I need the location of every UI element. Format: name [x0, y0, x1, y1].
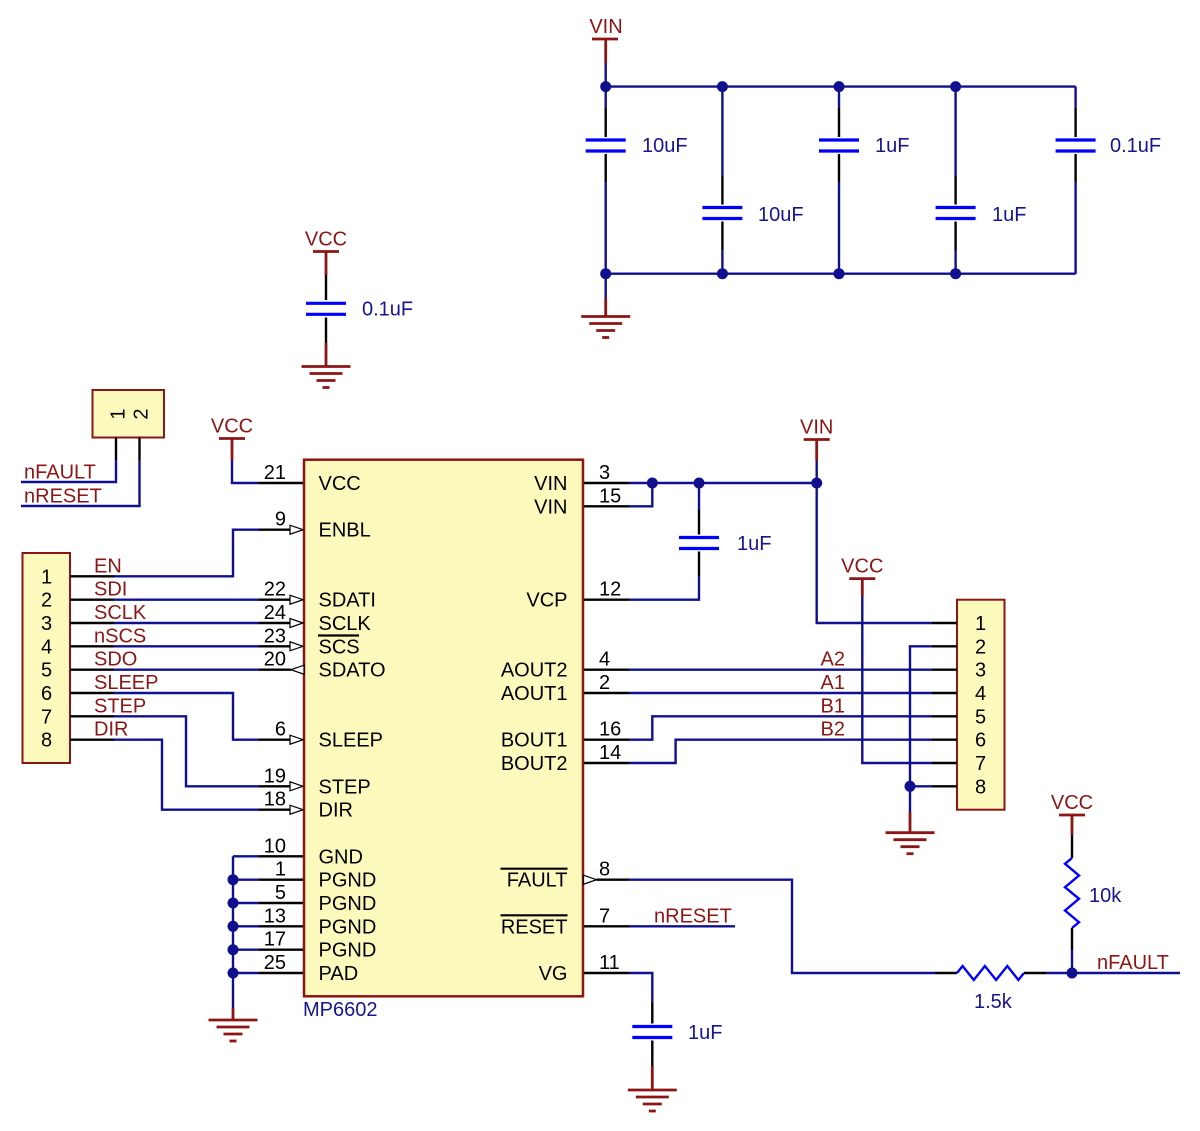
svg-text:8: 8	[599, 859, 610, 881]
IC left pin numbers	[264, 462, 286, 974]
svg-text:STEP: STEP	[94, 695, 146, 717]
power symbol VIN (top)	[589, 16, 622, 63]
svg-text:nSCS: nSCS	[94, 625, 146, 647]
svg-text:SDATO: SDATO	[319, 660, 386, 682]
junction dot pin8 ground	[905, 781, 916, 792]
svg-text:1uF: 1uF	[875, 135, 909, 157]
pin stub+arrow ENBL 9	[259, 529, 290, 531]
connector pin labels 1-8 (right)	[975, 613, 986, 798]
svg-text:B2: B2	[821, 719, 845, 741]
svg-text:STEP: STEP	[319, 776, 371, 798]
power symbol VCC (motor connector)	[841, 556, 883, 596]
wire VG to C8	[629, 973, 652, 1003]
svg-text:10k: 10k	[1089, 885, 1122, 907]
capacitor C3 1uF column 3	[819, 87, 859, 274]
pin stubs right connector	[932, 623, 957, 786]
svg-text:4: 4	[41, 636, 52, 658]
wire motor connector pin2/pin8 ground vertical	[910, 646, 932, 786]
wire GND row stubs to bus	[233, 856, 259, 973]
svg-text:9: 9	[275, 509, 286, 531]
pin stub VG 11	[584, 972, 629, 974]
pin stub+arrow SDATO 20 (output)	[259, 669, 291, 671]
wire nSCS net	[114, 645, 259, 647]
capacitor C6 0.1uF	[306, 275, 346, 343]
pin stub+arrow SDATI 22	[259, 599, 290, 601]
svg-text:23: 23	[264, 625, 286, 647]
IC body U1	[304, 460, 583, 997]
wire A2 net	[629, 669, 932, 671]
svg-text:8: 8	[975, 776, 986, 798]
pin stub VCP 12	[584, 599, 629, 601]
svg-text:VIN: VIN	[589, 16, 622, 38]
svg-text:22: 22	[264, 579, 286, 601]
svg-text:11: 11	[599, 952, 620, 974]
pin stub conn2 pin2	[138, 438, 140, 461]
pin stub VCC 21	[259, 482, 303, 484]
svg-text:1: 1	[975, 613, 986, 635]
svg-text:2: 2	[130, 408, 152, 419]
ground (VG cap)	[628, 1066, 677, 1111]
svg-text:VCP: VCP	[526, 590, 567, 612]
connector pin labels 1-8 (left)	[41, 566, 52, 751]
pin stub PGND 1	[259, 879, 303, 881]
ground (motor connector)	[886, 812, 935, 854]
pin stub BOUT2 14	[584, 762, 629, 764]
pin stub+arrow FAULT 8 (output)	[584, 875, 597, 884]
svg-text:VCC: VCC	[841, 556, 883, 578]
wire SDO net	[114, 669, 259, 671]
svg-text:PGND: PGND	[319, 916, 377, 938]
wire VCC to pin 21	[232, 460, 259, 483]
pin stub conn2 pin1	[115, 438, 117, 461]
pin stub PGND 17	[259, 949, 303, 951]
ground (VCC decoupler)	[302, 343, 351, 388]
wire B1 net	[629, 716, 932, 739]
ground (cap bank)	[581, 298, 630, 338]
wire nRESET from conn2 pin2	[21, 460, 140, 506]
svg-text:10: 10	[264, 835, 286, 857]
svg-text:EN: EN	[94, 555, 122, 577]
svg-text:FAULT: FAULT	[507, 870, 568, 892]
svg-text:1uF: 1uF	[688, 1022, 722, 1044]
svg-text:1.5k: 1.5k	[974, 991, 1013, 1013]
wire B2 net	[629, 740, 932, 763]
wire nFAULT to right edge	[1072, 972, 1180, 974]
svg-text:AOUT1: AOUT1	[501, 683, 568, 705]
svg-text:10uF: 10uF	[758, 204, 804, 226]
svg-text:ENBL: ENBL	[319, 520, 371, 542]
wire VIN pin15 up to pin3 row	[629, 483, 652, 506]
pin stub+arrow DIR 18	[259, 809, 290, 811]
svg-text:18: 18	[264, 789, 286, 811]
IC left pin names	[319, 473, 386, 985]
svg-text:DIR: DIR	[319, 800, 353, 822]
svg-text:8: 8	[41, 730, 52, 752]
svg-text:1uF: 1uF	[737, 533, 771, 555]
wire VCC down to motor connector pin 7	[862, 596, 932, 763]
pin stub PAD 25	[259, 972, 303, 974]
svg-text:nFAULT: nFAULT	[24, 462, 96, 484]
overline for FAULT (active low)	[501, 868, 568, 870]
pin stub PGND 13	[259, 925, 303, 927]
wire 10k to nFAULT junction	[1071, 950, 1073, 973]
svg-text:VIN: VIN	[800, 417, 833, 439]
svg-text:14: 14	[599, 742, 621, 764]
wire VIN net (pin3 row)	[629, 482, 817, 484]
pin stub+arrow SCS 23	[259, 645, 290, 647]
svg-text:SLEEP: SLEEP	[319, 730, 383, 752]
svg-text:AOUT2: AOUT2	[501, 660, 568, 682]
svg-text:5: 5	[41, 660, 52, 682]
svg-text:6: 6	[41, 683, 52, 705]
wire VIN stem to bus	[605, 63, 607, 87]
pin stub VIN 3	[584, 482, 629, 484]
svg-text:5: 5	[275, 882, 286, 904]
svg-text:VCC: VCC	[1051, 792, 1093, 814]
wire pin8 dot to ground	[909, 786, 911, 812]
pin stub AOUT2 4	[584, 669, 629, 671]
wire FAULT net to 1.5k	[629, 880, 935, 973]
svg-text:DIR: DIR	[94, 719, 128, 741]
capacitor C8 1uF (VG)	[632, 1003, 672, 1066]
svg-text:13: 13	[264, 905, 286, 927]
svg-text:VG: VG	[539, 963, 568, 985]
svg-text:RESET: RESET	[501, 916, 568, 938]
connector 8-pin box (motor, right)	[957, 600, 1005, 810]
wire 1.5k to junction	[1046, 972, 1072, 974]
svg-text:A1: A1	[821, 672, 845, 694]
pin stub PGND 5	[259, 902, 303, 904]
svg-text:10uF: 10uF	[642, 135, 688, 157]
pin stub GND 10	[259, 855, 303, 857]
wire SCLK net	[114, 622, 259, 624]
power symbol VIN (right)	[800, 417, 833, 462]
svg-text:VIN: VIN	[534, 473, 567, 495]
svg-text:3: 3	[41, 613, 52, 635]
overline for RESET (active low)	[501, 914, 568, 916]
svg-text:VCC: VCC	[305, 229, 347, 251]
svg-text:PGND: PGND	[319, 870, 377, 892]
pin stubs left connector	[70, 576, 114, 739]
capacitor C5 0.1uF column 5	[1056, 87, 1096, 274]
pin stub+arrow SCLK 24	[259, 622, 290, 624]
capacitor C1 10uF column 1	[586, 87, 626, 274]
wire bottom bus	[606, 273, 1076, 275]
IC right pin numbers	[599, 462, 621, 974]
svg-text:nRESET: nRESET	[654, 905, 732, 927]
power symbol VCC (decoupler)	[305, 229, 347, 276]
IC right pin names	[501, 473, 568, 985]
svg-text:nRESET: nRESET	[24, 486, 102, 508]
svg-text:5: 5	[975, 706, 986, 728]
wire VIN down to motor connector pin 1	[817, 483, 932, 623]
junction dot C7 top	[694, 478, 705, 489]
svg-text:24: 24	[264, 602, 286, 624]
capacitor C4 1uF column 4	[936, 87, 976, 274]
svg-text:2: 2	[599, 672, 610, 694]
svg-text:4: 4	[599, 649, 610, 671]
svg-text:MP6602: MP6602	[303, 999, 378, 1021]
svg-text:3: 3	[599, 462, 610, 484]
svg-text:VCC: VCC	[319, 473, 361, 495]
junction dot VIN power	[811, 478, 822, 489]
svg-text:19: 19	[264, 765, 286, 787]
svg-text:SCLK: SCLK	[94, 602, 147, 624]
svg-text:3: 3	[975, 660, 986, 682]
svg-text:2: 2	[975, 636, 986, 658]
wire GND bus vertical	[232, 856, 234, 1008]
svg-text:SDATI: SDATI	[319, 590, 376, 612]
capacitor C2 10uF column 2	[702, 87, 742, 274]
svg-text:20: 20	[264, 649, 286, 671]
junction dots on top bus	[600, 81, 611, 92]
wire DIR net	[114, 740, 259, 810]
svg-text:SDI: SDI	[94, 579, 127, 601]
svg-text:SDO: SDO	[94, 649, 137, 671]
pin stub+arrow SLEEP 6	[259, 739, 290, 741]
junction dots on bottom bus	[600, 268, 611, 279]
svg-text:SLEEP: SLEEP	[94, 672, 158, 694]
wire VIN power to bus	[816, 461, 818, 483]
svg-text:VIN: VIN	[534, 496, 567, 518]
pin stub VIN 15	[584, 505, 629, 507]
wire nRESET net	[629, 925, 735, 927]
svg-text:21: 21	[264, 462, 286, 484]
svg-text:A2: A2	[821, 649, 845, 671]
svg-text:PAD: PAD	[319, 963, 359, 985]
svg-text:1uF: 1uF	[992, 204, 1026, 226]
overline for SCS (active low)	[318, 634, 359, 636]
svg-text:PGND: PGND	[319, 940, 377, 962]
connector 2-pin box	[93, 390, 165, 438]
svg-text:7: 7	[41, 706, 52, 728]
svg-text:2: 2	[41, 590, 52, 612]
wire bottom bus to ground	[605, 274, 607, 298]
svg-text:7: 7	[975, 753, 986, 775]
wire top bus	[606, 85, 1076, 87]
wire nFAULT from conn2 pin1	[21, 460, 116, 482]
svg-text:16: 16	[599, 719, 621, 741]
junction dots on GND bus	[228, 874, 239, 885]
svg-text:12: 12	[599, 579, 621, 601]
svg-text:6: 6	[275, 719, 286, 741]
wire EN net	[114, 530, 259, 577]
svg-text:25: 25	[264, 952, 286, 974]
svg-text:nFAULT: nFAULT	[1097, 952, 1169, 974]
resistor R2 1.5k (horizontal)	[935, 966, 1046, 980]
svg-text:7: 7	[599, 905, 610, 927]
svg-text:SCS: SCS	[319, 636, 360, 658]
wire A1 net	[629, 692, 932, 694]
pin stub RESET 7	[584, 925, 629, 927]
svg-text:B1: B1	[821, 695, 845, 717]
svg-text:4: 4	[975, 683, 986, 705]
wire SDI net	[114, 599, 259, 601]
junction dot VIN pins join	[647, 478, 658, 489]
svg-text:1: 1	[275, 859, 286, 881]
svg-text:BOUT2: BOUT2	[501, 753, 568, 775]
resistor R1 10k (vertical pullup)	[1065, 835, 1079, 950]
svg-text:17: 17	[264, 929, 286, 951]
capacitor C7 1uF (VCP)	[629, 483, 719, 600]
svg-text:1: 1	[107, 408, 129, 419]
junction dot nFAULT	[1067, 968, 1078, 979]
wire STEP net	[114, 716, 259, 786]
svg-text:15: 15	[599, 485, 621, 507]
svg-text:6: 6	[975, 730, 986, 752]
pin stub AOUT1 2	[584, 692, 629, 694]
svg-text:0.1uF: 0.1uF	[362, 299, 413, 321]
svg-text:VCC: VCC	[211, 416, 253, 438]
svg-text:0.1uF: 0.1uF	[1110, 135, 1161, 157]
pin stub+arrow STEP 19	[259, 785, 290, 787]
svg-text:1: 1	[41, 566, 52, 588]
svg-text:BOUT1: BOUT1	[501, 730, 568, 752]
svg-text:PGND: PGND	[319, 893, 377, 915]
connector 8-pin box (left)	[23, 553, 71, 763]
power symbol VCC (pin21)	[211, 416, 253, 461]
svg-text:SCLK: SCLK	[319, 613, 372, 635]
pin stub BOUT1 16	[584, 739, 629, 741]
ground (IC GND/PGND/PAD)	[209, 1008, 258, 1041]
svg-text:GND: GND	[319, 846, 363, 868]
wire SLEEP net	[114, 693, 259, 740]
power symbol VCC (pullup)	[1051, 792, 1093, 835]
